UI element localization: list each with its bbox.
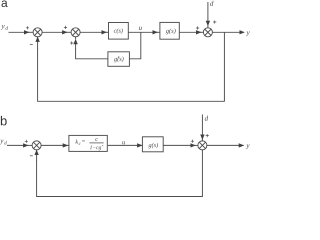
block g-hat model — [108, 52, 129, 67]
node d label (a) — [210, 1, 213, 6]
minus sign at B1 bottom input — [30, 155, 33, 157]
block c(s) — [109, 23, 129, 40]
summing junction B1 — [32, 141, 41, 150]
wire node u tap to model block — [129, 32, 140, 59]
arrow feedback into S1 bottom — [37, 37, 39, 49]
wire outer feedback from output tap — [38, 32, 225, 101]
wire y_d to summer S1 — [9, 31, 34, 33]
wire S2 to block c(s) — [80, 31, 108, 33]
summing junction S3 — [203, 28, 212, 37]
plus sign at B2 left input — [191, 140, 194, 143]
wire d into S3 — [207, 2, 209, 28]
summing junction S2 — [71, 28, 80, 37]
wire controller to g(s) with node u — [108, 144, 142, 146]
block g(s) (a) — [160, 22, 179, 39]
wire S3 to output y — [212, 31, 244, 33]
minus sign at S1 bottom input — [30, 44, 33, 46]
wire model output to S2 bottom — [76, 48, 108, 59]
node d label (b) — [205, 116, 208, 121]
arrow model output into S2 bottom — [75, 37, 77, 49]
block controller k_c = c/(1-c g-hat) — [69, 135, 107, 151]
plus sign at B1 left input — [25, 140, 28, 143]
wire y_d to summer B1 — [7, 144, 32, 146]
wire g(s) to summer B2 — [163, 144, 198, 146]
plus sign at S2 bottom input — [70, 41, 73, 44]
node u label (b) — [122, 141, 125, 144]
node y_d input (b) — [0, 140, 7, 145]
wire B2 to output y — [207, 144, 244, 146]
label b — [1, 116, 7, 126]
wire g(s) to summer S3 — [179, 31, 203, 33]
wire d into B2 — [201, 115, 203, 141]
block g(s) (b) — [142, 137, 163, 152]
label a — [2, 0, 8, 7]
plus sign at S2 left input — [64, 26, 67, 29]
wire c(s) to g(s) with node u — [128, 31, 160, 33]
summing junction B2 — [198, 141, 207, 150]
node y_d input (a) — [1, 25, 8, 30]
plus sign at B2 top input — [206, 134, 209, 137]
node u label (a) — [139, 27, 142, 30]
wire B1 to controller block — [41, 144, 69, 146]
arrow feedback into B1 bottom — [36, 150, 38, 160]
node y output label (b) — [246, 144, 250, 149]
node y output label (a) — [246, 31, 250, 36]
wire feedback from B2 bottom — [37, 150, 203, 197]
plus sign at S1 left input — [26, 26, 29, 29]
plus sign at S3 top input — [213, 20, 216, 23]
wire S1 to S2 — [42, 31, 71, 33]
summing junction S1 — [33, 28, 42, 37]
plus sign at S3 left input — [196, 26, 199, 29]
